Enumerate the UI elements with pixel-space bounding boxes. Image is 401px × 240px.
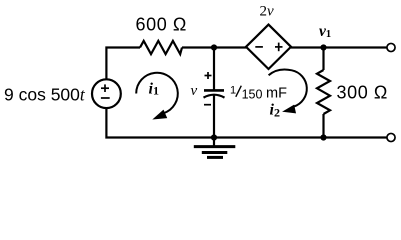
resistor 600-ohm zigzag: [140, 41, 182, 54]
capacitor C top plate: [204, 89, 224, 92]
junction dot node v1: [320, 44, 326, 50]
svg-text:i2: i2: [270, 101, 280, 119]
svg-text:9 cos 500t: 9 cos 500t: [4, 85, 86, 105]
mesh current i1 arc: [136, 73, 178, 114]
junction dot bottom ground node: [211, 134, 217, 140]
capacitor C curved bottom plate: [204, 95, 225, 98]
wire resistor to dependent source: [182, 46, 246, 48]
wire capacitor bottom lead: [213, 95, 215, 138]
wire bottom from ground node to right terminal: [214, 136, 387, 138]
wire capacitor top lead: [213, 48, 215, 91]
svg-text:mF: mF: [266, 86, 287, 102]
ground symbol: [194, 138, 236, 158]
junction dot top capacitor node: [211, 44, 217, 50]
wire dependent source to node v1 and right terminal: [291, 46, 387, 48]
voltage source VS 9cos500t circle: [92, 79, 121, 108]
open terminal bottom right: [387, 133, 395, 141]
svg-text:v: v: [191, 83, 198, 99]
voltage source plus sign: [101, 84, 109, 92]
svg-text:v1: v1: [319, 23, 331, 40]
wire 300-ohm bottom lead: [322, 114, 324, 138]
dependent source minus sign: [255, 46, 263, 48]
capacitor minus polarity mark: [204, 104, 211, 106]
svg-text:2v: 2v: [260, 4, 275, 20]
svg-text:300 Ω: 300 Ω: [337, 83, 389, 103]
svg-text:600 Ω: 600 Ω: [136, 15, 188, 35]
mesh current i2 arc: [269, 69, 307, 106]
open terminal top right: [387, 43, 395, 51]
voltage source minus sign: [101, 97, 110, 99]
svg-text:1: 1: [230, 84, 236, 96]
wire top-left from source to resistor: [106, 48, 140, 81]
junction dot bottom 300-ohm node: [320, 134, 326, 140]
dependent source plus sign: [275, 43, 283, 52]
svg-text:150: 150: [242, 88, 263, 102]
wire 300-ohm top lead: [322, 48, 324, 71]
dependent source U1 diamond 2v: [246, 25, 291, 69]
mesh current i2 arrowhead: [284, 105, 296, 112]
mesh current i1 arrowhead: [154, 111, 167, 119]
resistor 300-ohm zigzag: [317, 70, 330, 114]
capacitor plus polarity mark: [205, 72, 212, 79]
svg-text:i1: i1: [149, 81, 159, 98]
wire source bottom to bottom-left corner: [106, 108, 214, 138]
